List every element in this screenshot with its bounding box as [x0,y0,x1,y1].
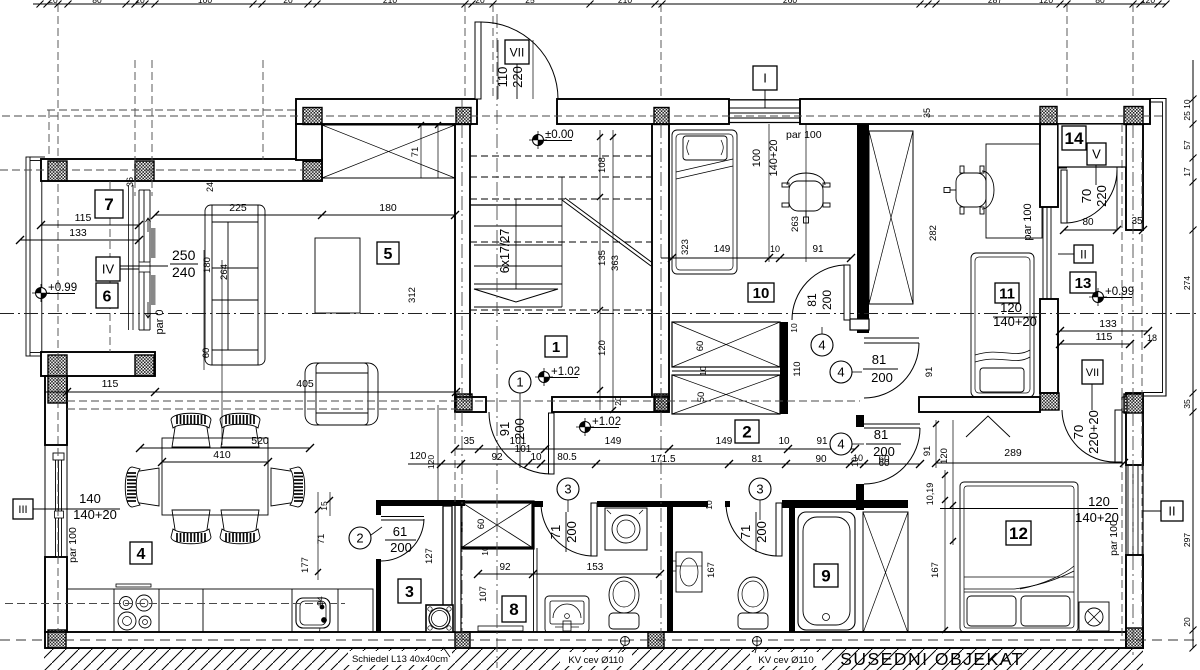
svg-text:80: 80 [1095,0,1105,5]
svg-text:10: 10 [704,500,714,510]
svg-text:108: 108 [597,157,608,173]
door VII top (stair entrance) [475,22,481,99]
nightstand room 12 [1079,602,1109,631]
svg-text:5: 5 [384,246,393,263]
coffee table room 5 [315,238,360,313]
wall room 11 / corridor 13 upper [1040,124,1058,207]
wall toilet room / bath 9 [782,500,795,508]
svg-text:20: 20 [475,0,485,5]
stair treads upper flight (dashed) [470,156,652,310]
svg-text:10: 10 [753,285,770,302]
svg-text:210: 210 [618,0,632,5]
svg-text:115: 115 [75,212,92,224]
svg-text:10: 10 [778,436,790,447]
svg-text:KV cev Ø110: KV cev Ø110 [568,655,623,666]
svg-text:282: 282 [928,225,939,241]
door number 3 left [557,478,579,500]
svg-text:410: 410 [213,449,231,461]
svg-text:±0.00: ±0.00 [545,129,574,141]
svg-text:2: 2 [356,531,363,546]
desk chair room 10 [782,173,830,223]
room box 10 [748,283,774,302]
svg-text:120: 120 [597,340,608,356]
wall right of room 3 [443,506,452,632]
svg-text:115: 115 [1096,331,1113,343]
closet upper room 10 [672,322,780,367]
top dimension row [33,3,1166,5]
stove burners [120,597,133,610]
svg-text:323: 323 [680,239,691,255]
room box 2 [735,420,759,443]
wall top of bath 9 [789,500,908,508]
door number 2 [349,527,371,549]
room box 4 [130,542,152,564]
svg-text:220+20: 220+20 [1086,410,1101,454]
svg-text:10: 10 [530,452,542,463]
svg-text:par 100: par 100 [67,527,79,563]
svg-text:312: 312 [407,287,418,303]
svg-text:KV cev Ø110: KV cev Ø110 [758,655,813,666]
svg-text:274: 274 [1182,276,1192,290]
room box IV [96,257,120,281]
door number 3 right [749,478,771,500]
svg-text:101: 101 [515,444,532,455]
svg-text:70: 70 [1071,425,1086,439]
level marker 0.99 left [32,292,50,294]
chimney Schiedel [426,605,453,632]
svg-text:6x17/27: 6x17/27 [498,229,512,274]
wall left of room 3 [376,501,381,515]
svg-text:80: 80 [1082,217,1094,228]
svg-text:264: 264 [219,264,230,280]
wall lobby vertical bar [856,415,864,427]
window 120 room 11 east [1042,207,1044,299]
stair break line [562,200,651,266]
svg-text:1: 1 [516,375,523,390]
thin outer wall right loggia [1143,99,1166,397]
svg-text:4: 4 [837,365,844,380]
window III left wall [55,458,57,560]
svg-text:520: 520 [251,435,269,447]
svg-text:81: 81 [751,454,763,465]
sliding door IV terrace [128,185,130,330]
level marker 1.02 corridor [576,426,594,428]
svg-text:120: 120 [426,455,436,469]
svg-text:par 100: par 100 [1022,203,1034,240]
svg-text:71: 71 [738,525,753,539]
svg-text:60: 60 [476,519,487,530]
svg-text:91: 91 [497,422,512,436]
svg-text:177: 177 [300,557,311,573]
shaft wall extension [533,548,535,632]
svg-text:91: 91 [922,446,933,457]
svg-text:120: 120 [1141,0,1155,5]
svg-text:91: 91 [924,367,935,378]
svg-text:167: 167 [706,562,717,578]
door 4c lobby [864,423,920,425]
svg-text:VII: VII [1086,367,1099,379]
svg-text:10: 10 [789,323,799,333]
svg-text:200: 200 [390,540,412,555]
svg-text:91: 91 [812,244,824,255]
closet divider [672,370,780,372]
svg-text:110: 110 [495,67,510,88]
room box 5 [377,242,399,264]
svg-text:140+20: 140+20 [768,139,780,176]
svg-text:IV: IV [102,262,115,277]
wall left exterior upper part [45,376,67,445]
chevron room 12 [966,416,1010,437]
svg-text:149: 149 [716,436,733,447]
double bed room 12 [960,482,1078,632]
washbasin room 8 [545,596,589,633]
svg-text:127: 127 [424,548,435,564]
shaft with X [461,502,533,548]
room box I top [753,66,777,90]
svg-text:107: 107 [478,586,489,602]
bathtub room 9 [798,512,855,630]
svg-text:+0.99: +0.99 [48,282,77,294]
room box III left [13,499,33,519]
svg-text:71: 71 [410,147,421,158]
svg-text:80: 80 [92,0,102,5]
svg-text:20: 20 [283,0,293,5]
hatch blocks [303,108,322,125]
svg-text:149: 149 [605,436,622,447]
svg-text:220: 220 [510,66,525,88]
svg-text:7: 7 [104,195,113,214]
svg-text:50: 50 [696,392,707,403]
svg-text:120: 120 [1088,494,1110,509]
room box VII right [1082,360,1103,384]
svg-text:11: 11 [999,285,1015,302]
level marker 0.00 [529,139,547,141]
svg-text:240: 240 [172,264,196,280]
room box 6 [96,283,118,308]
wall bottom exterior [45,632,1143,648]
svg-text:Schiedel L13 40x40cm: Schiedel L13 40x40cm [352,654,448,665]
svg-text:35: 35 [922,108,932,118]
svg-text:135: 135 [597,250,608,266]
thin outer wall left terrace [26,157,30,356]
svg-text:+1.02: +1.02 [551,366,580,378]
room box 12 [1006,521,1031,545]
stair wall right [652,124,669,397]
svg-text:60: 60 [878,458,890,469]
svg-text:10: 10 [850,457,860,467]
svg-text:60: 60 [201,348,212,359]
wall band VII right jamb [1122,397,1127,412]
svg-text:120: 120 [939,448,950,464]
svg-text:120: 120 [410,451,427,462]
svg-text:20: 20 [1182,617,1192,627]
svg-text:100: 100 [198,0,212,5]
wall washer room / toilet room [667,507,673,632]
svg-text:III: III [18,504,27,516]
svg-text:18: 18 [1147,333,1157,343]
label KV cev 2 [750,652,822,666]
stair treads lower flight [470,177,562,307]
armchair room 5 [305,363,378,425]
svg-text:70: 70 [1079,189,1094,203]
wall room 11 / corridor 13 lower [1040,299,1058,393]
svg-text:91: 91 [816,436,828,447]
door 2 room 3 [381,516,424,518]
closet lower room 10 [672,375,780,414]
room box 7 [95,190,123,218]
shaft wall left extension [455,502,461,632]
svg-text:90: 90 [815,454,827,465]
stair wall left [455,124,470,397]
svg-text:289: 289 [1004,447,1022,459]
level marker 1.02 stair [535,376,553,378]
wall left exterior lower part [45,557,67,632]
wall top band A segment 1 [296,99,477,124]
svg-text:10: 10 [770,244,780,254]
room box 13 [1070,272,1096,293]
wall right exterior lower [1126,555,1143,648]
svg-text:36: 36 [125,177,135,187]
svg-text:6: 6 [103,288,112,305]
svg-text:81: 81 [872,352,886,367]
svg-text:200: 200 [871,370,893,385]
wall right exterior upper [1126,124,1143,230]
closet right wall bar [780,322,788,414]
svg-text:363: 363 [610,255,621,271]
room box II corridor 13 [1074,245,1093,263]
svg-text:+1.02: +1.02 [592,416,621,428]
svg-text:25: 25 [525,0,535,5]
svg-text:10,19: 10,19 [925,483,935,506]
label KV cev 1 [560,652,632,666]
closet room 14 [1058,124,1126,167]
room box V [1087,143,1106,165]
svg-text:17: 17 [1182,167,1192,177]
svg-text:12: 12 [1009,524,1028,543]
svg-text:263: 263 [790,216,801,232]
stair direction arrow [474,289,558,302]
svg-text:24: 24 [205,182,215,192]
desk room 11 [986,144,1042,238]
door number 1 [509,371,531,393]
right dimension column [1192,60,1194,648]
svg-text:81: 81 [805,293,819,307]
svg-text:10: 10 [698,366,708,376]
kitchen sink [296,598,330,628]
svg-text:II: II [1080,247,1087,261]
svg-text:180: 180 [379,202,397,214]
svg-text:94: 94 [315,596,325,606]
svg-text:140: 140 [79,491,101,506]
svg-text:167: 167 [930,562,941,578]
door 4b room 11 [864,337,919,339]
svg-text:2: 2 [742,423,751,442]
svg-text:VII: VII [510,45,525,59]
level marker 0.99 right [1089,296,1107,298]
door 3a bathroom 8 [591,503,597,556]
wall right exterior mid [1126,393,1143,465]
svg-text:par 100: par 100 [786,129,822,141]
svg-text:20: 20 [48,0,58,5]
svg-text:287: 287 [988,0,1002,5]
bed room 11 [971,253,1034,397]
svg-text:133: 133 [1099,318,1117,330]
svg-text:297: 297 [1182,533,1192,547]
drain symbol 1 [621,637,630,646]
room box II right [1161,501,1183,521]
svg-text:115: 115 [102,378,119,390]
svg-text:100: 100 [751,149,763,167]
door VII right (corridor 13 to room 12) [1115,410,1122,462]
corridor wall band stair to closet [552,397,669,412]
svg-text:1: 1 [552,339,560,356]
svg-text:par 100: par 100 [1108,520,1120,556]
ground hatch [44,648,1143,670]
svg-text:61: 61 [393,524,407,539]
svg-text:140+20: 140+20 [993,314,1037,329]
svg-text:V: V [1092,147,1101,162]
door number 4 lobby [830,433,852,455]
svg-text:405: 405 [296,378,314,390]
svg-text:SUSEDNI OBJEKAT: SUSEDNI OBJEKAT [840,649,1024,669]
svg-text:20: 20 [613,396,623,406]
room box 3 [398,579,421,603]
svg-text:200: 200 [873,444,895,459]
wall corner band left [41,352,155,376]
wall top of bathroom 8 [533,501,543,507]
towel rail room 8 [478,626,523,631]
door 4a room 10 [844,265,850,320]
chairs room 4 [171,413,211,447]
wall top band A segment 3 [800,99,1150,124]
svg-text:250: 250 [172,247,196,263]
wardrobe room 5 [322,125,455,178]
wall top band A segment 2 [557,99,729,124]
door 1 (stair hall to corridor) [549,413,555,474]
svg-text:10: 10 [480,546,490,556]
bed room 10 [672,130,737,274]
svg-text:81: 81 [874,427,888,442]
svg-text:225: 225 [229,202,247,214]
room box VII top [505,40,529,64]
couch room 5 [205,205,265,365]
wall stub room 10 door [850,319,869,330]
toilet 2 [738,577,768,613]
wardrobe room 11 [869,131,913,304]
drain symbol 2 [753,637,762,646]
svg-text:200: 200 [512,418,527,440]
door number 4 room 10 [811,334,833,356]
door 3b toilet room [776,503,782,556]
kitchen counter [67,589,373,632]
svg-text:3: 3 [756,482,763,497]
svg-text:57: 57 [1182,140,1192,150]
svg-text:35: 35 [1182,399,1192,409]
room box 14 [1062,126,1086,150]
svg-text:220: 220 [1094,185,1109,207]
washing machine [605,508,647,550]
svg-text:149: 149 [714,244,731,255]
room box 9 [814,564,838,587]
svg-text:4: 4 [137,546,146,563]
svg-text:210: 210 [383,0,397,5]
svg-text:260: 260 [783,0,797,5]
svg-text:80.5: 80.5 [557,452,577,463]
svg-text:171.5: 171.5 [650,454,675,465]
svg-text:4: 4 [818,338,825,353]
wall between rooms 10 and 11 [857,124,869,333]
room box 1 [545,336,567,357]
svg-text:25 10: 25 10 [1182,99,1192,121]
svg-text:9: 9 [821,567,830,586]
svg-text:153: 153 [587,562,604,573]
svg-text:110: 110 [792,361,803,376]
wall band B upper-left [41,159,322,181]
wall top of room 3 [376,500,465,506]
svg-text:3: 3 [405,584,414,601]
svg-text:+0.99: +0.99 [1105,286,1134,298]
svg-text:I: I [763,71,767,86]
svg-text:14: 14 [1065,129,1084,148]
svg-text:92: 92 [491,452,503,463]
window II right wall [1127,465,1129,555]
svg-text:20: 20 [135,0,145,5]
svg-text:par 0: par 0 [154,309,166,334]
washbasin toilet room [676,552,702,592]
svg-text:92: 92 [499,562,511,573]
wall connector band A to B [296,124,322,160]
svg-text:120: 120 [1039,0,1053,5]
wardrobe near bath [863,512,908,633]
svg-text:71: 71 [548,525,563,539]
door V room 14 [1061,170,1067,223]
svg-text:3: 3 [564,482,571,497]
svg-text:133: 133 [69,227,87,239]
svg-text:200: 200 [820,290,834,310]
door number 4 room 11 [830,361,852,383]
window I in top wall [729,99,800,101]
svg-text:II: II [1168,504,1175,519]
svg-text:4: 4 [837,437,844,452]
corridor wall band under stair [455,397,486,412]
label Schiedel [348,651,452,665]
desk chair room 11 [944,166,994,214]
toilet 1 [609,577,639,613]
dining table room 4 [162,438,268,515]
room box 11 [995,283,1019,303]
svg-text:35: 35 [463,436,475,447]
room box 8 [502,596,526,622]
svg-text:35: 35 [1131,216,1143,227]
svg-text:8: 8 [509,600,518,619]
wall top of toilet room [597,501,708,507]
svg-text:60: 60 [695,341,706,352]
svg-text:13: 13 [1075,275,1092,292]
corridor wall band under room 11 [919,397,1040,412]
